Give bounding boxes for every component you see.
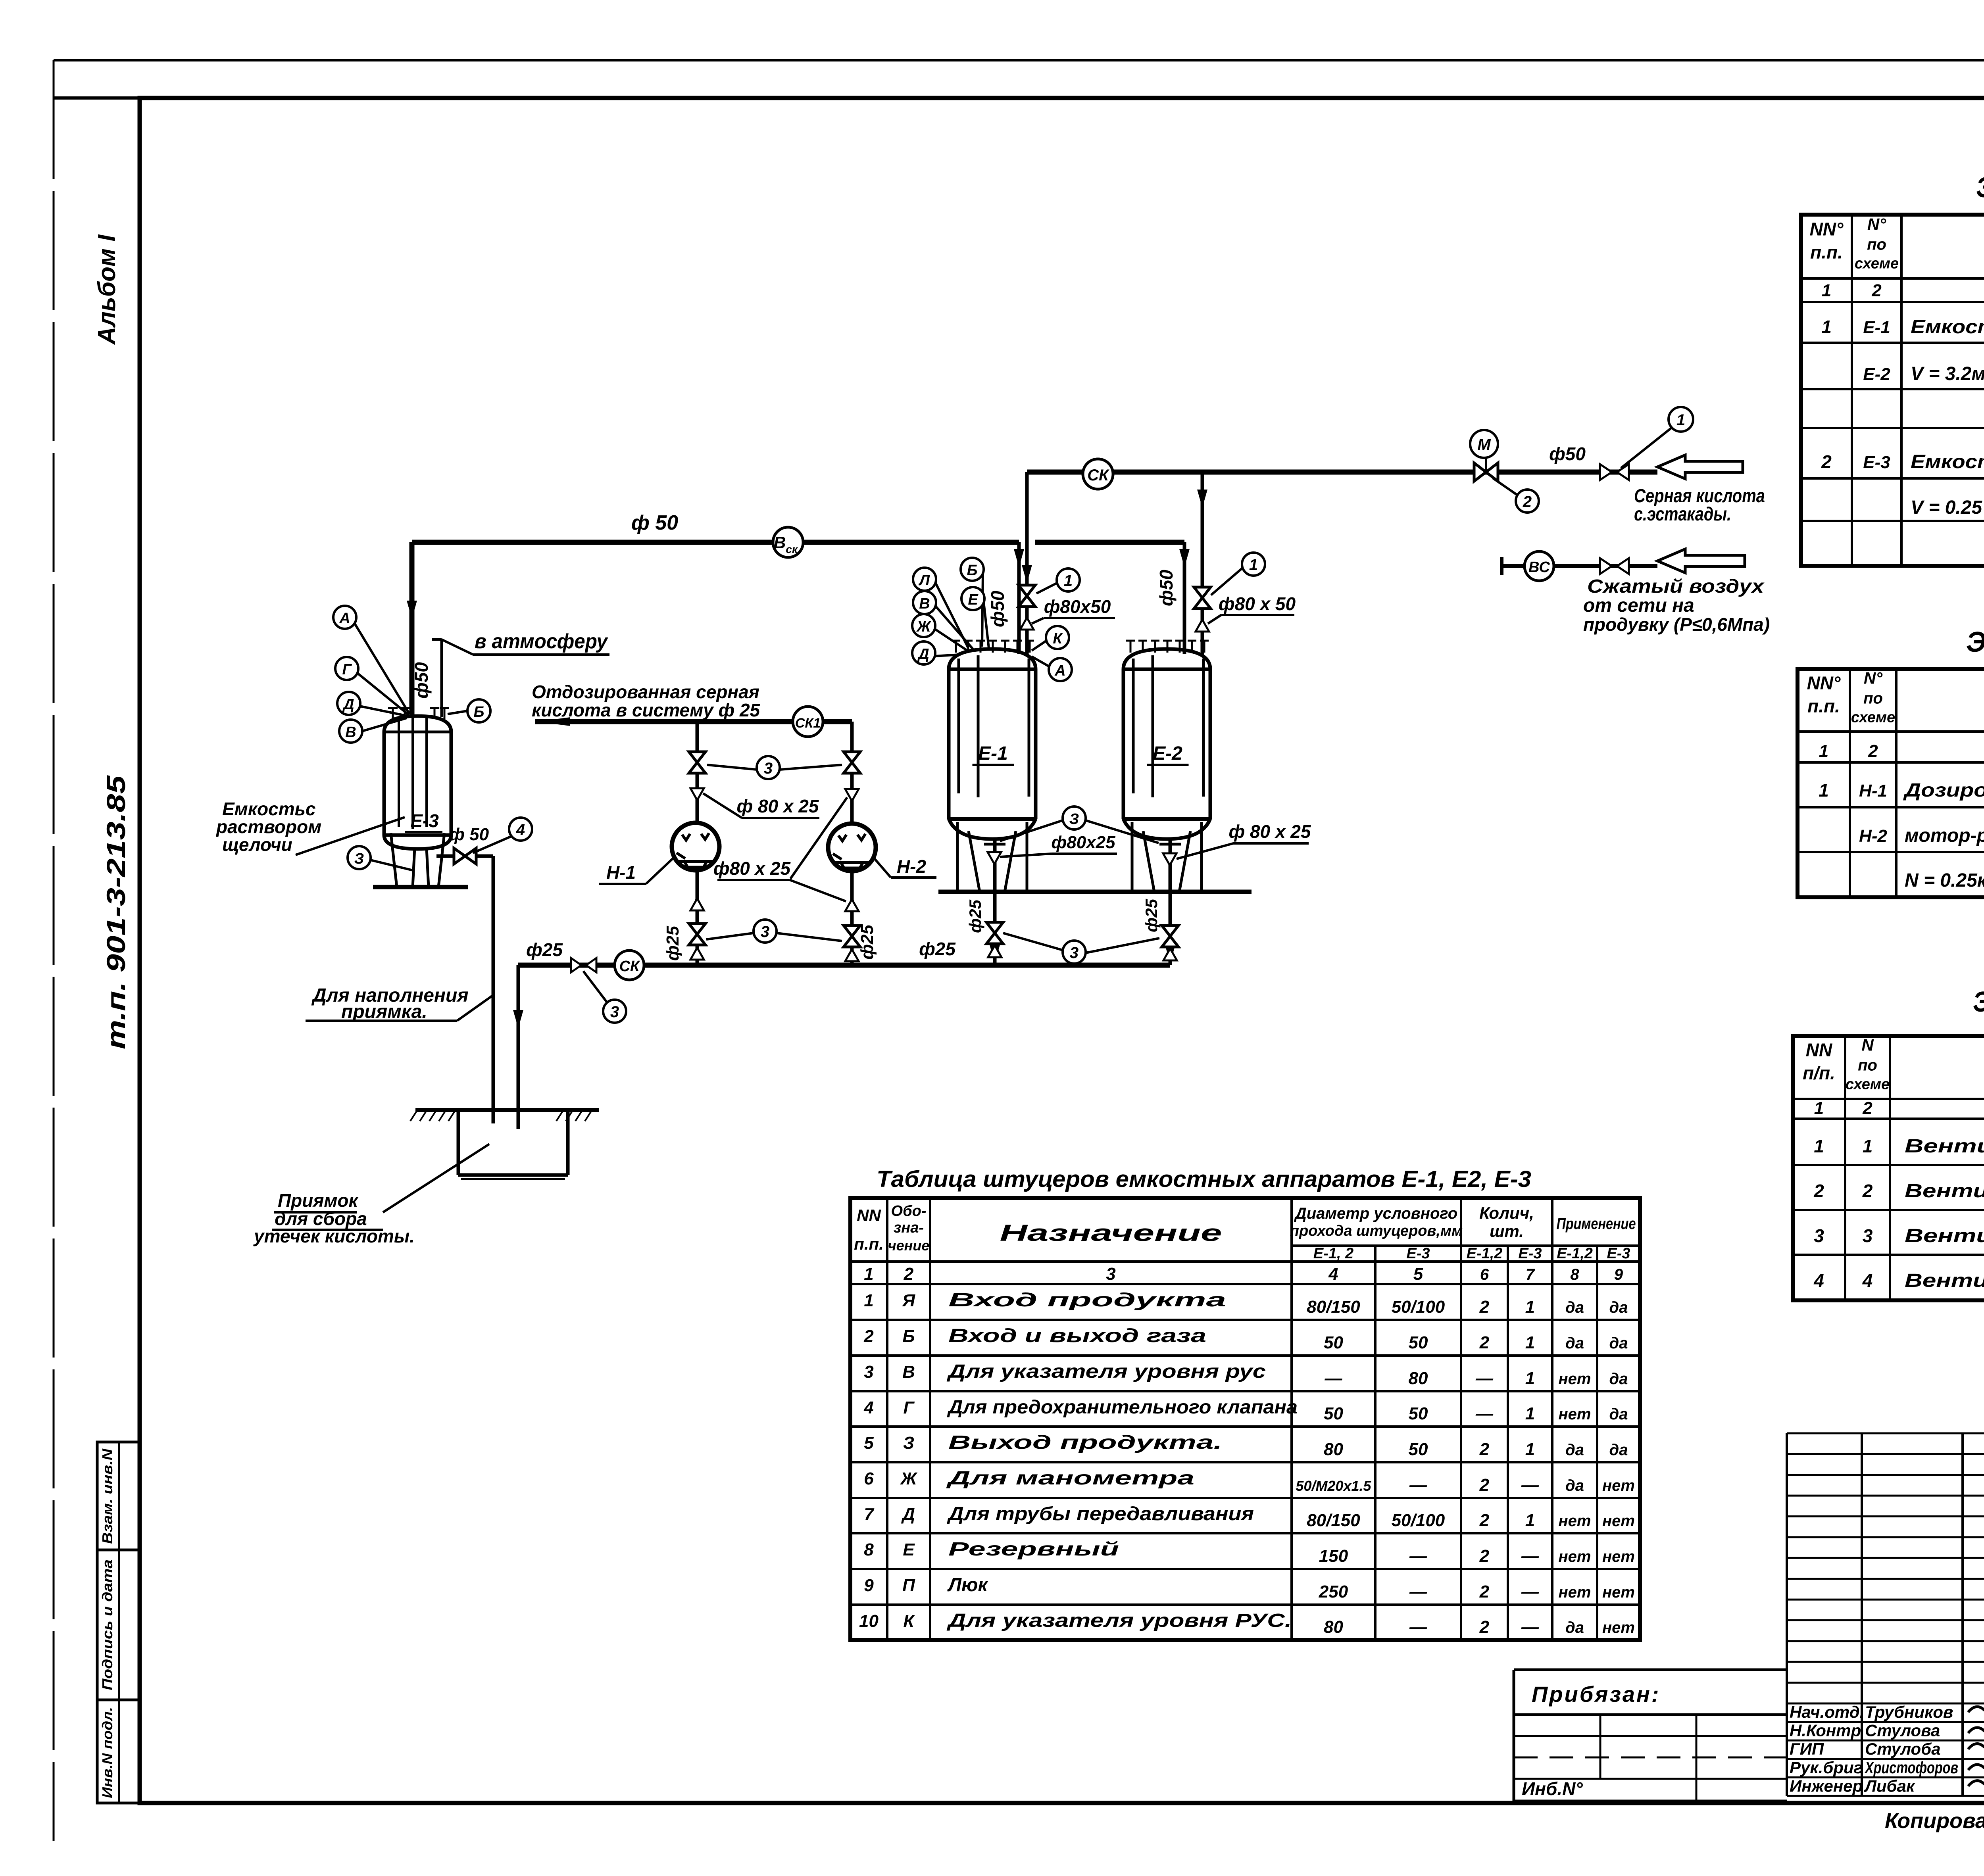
svg-text:в атмосферу: в атмосферу (475, 630, 609, 653)
svg-text:Колич,: Колич, (1479, 1204, 1534, 1222)
svg-text:нет: нет (1559, 1370, 1591, 1388)
svg-text:нет: нет (1602, 1619, 1635, 1636)
svg-text:да: да (1565, 1441, 1584, 1459)
ground line under tanks (938, 890, 1252, 894)
svg-text:Вентиль 14с 917 ст 9; Ду 5: Вентиль 14с 917 ст 9; Ду 50, Ру 1.0 Мпа (1905, 1181, 1984, 1202)
svg-text:3: 3 (1106, 1264, 1115, 1284)
svg-text:Экспликация аппаратов: Экспликация аппаратов (1976, 172, 1984, 204)
svg-text:З: З (1069, 811, 1079, 828)
svg-text:нет: нет (1559, 1406, 1591, 1423)
callout 4 (Е-3 outlet valve) (509, 818, 532, 841)
outlet nozzle З of Е-2 (1163, 853, 1177, 865)
svg-text:по: по (1867, 236, 1886, 253)
svg-text:Д: Д (917, 646, 929, 662)
svg-text:1: 1 (1525, 1297, 1535, 1317)
svg-text:Вентиль 15кч18п; Ду 50, Ру1: Вентиль 15кч18п; Ду 50, Ру1.0 Мпа (1905, 1136, 1984, 1157)
callout 1 (Е-1 feed valve) (1057, 568, 1080, 591)
svg-text:нет: нет (1602, 1477, 1635, 1494)
svg-text:ф50: ф50 (1549, 444, 1586, 464)
svg-text:т.п. 901-3-213.85: т.п. 901-3-213.85 (101, 775, 131, 1049)
callout В (Е-1) (913, 591, 936, 614)
svg-text:Применение: Применение (1557, 1215, 1636, 1233)
svg-text:Ж: Ж (900, 1469, 918, 1488)
svg-text:Вентиль 15ч75п1; Ду 50, Ру1.0: Вентиль 15ч75п1; Ду 50, Ру1.0 М па (1905, 1270, 1984, 1291)
svg-text:—: — (1521, 1617, 1539, 1637)
outer page border (54, 59, 1984, 61)
svg-text:да: да (1565, 1477, 1584, 1494)
node СК circle on header (615, 950, 644, 980)
callout 3 (discharge valves) (754, 920, 777, 943)
callout З (Е-3 outlet) (348, 846, 371, 869)
svg-text:Инженер: Инженер (1790, 1776, 1863, 1795)
svg-text:ф25: ф25 (1142, 899, 1161, 932)
wire: Е-3 drain down to pit (492, 856, 495, 1123)
svg-text:СК1: СК1 (795, 716, 821, 731)
svg-text:—: — (1475, 1369, 1494, 1388)
svg-text:3: 3 (764, 760, 773, 777)
svg-text:—: — (1409, 1582, 1427, 1601)
svg-text:2: 2 (1862, 1181, 1873, 1201)
svg-text:80: 80 (1324, 1440, 1343, 1459)
svg-text:4: 4 (516, 821, 525, 839)
title block: signature grid (1787, 1432, 1984, 1434)
svg-text:ВС: ВС (1528, 559, 1550, 576)
callout Е (Е-1) (961, 587, 984, 610)
svg-text:Н-1: Н-1 (1859, 781, 1887, 801)
svg-text:Христофоров: Христофоров (1864, 1758, 1958, 1777)
svg-text:да: да (1609, 1441, 1628, 1459)
svg-text:Взам. инв.N: Взам. инв.N (99, 1448, 115, 1544)
svg-text:нет: нет (1559, 1584, 1591, 1601)
svg-text:8: 8 (864, 1540, 874, 1559)
wire: Е-2 bottom outlet to header (1169, 839, 1172, 965)
pump Н-1 (672, 823, 719, 870)
svg-text:Инв.N подл.: Инв.N подл. (99, 1707, 115, 1798)
svg-text:Инб.N°: Инб.N° (1522, 1778, 1583, 1799)
pipe: СК acid header ф50 (1027, 470, 1657, 475)
Е-3 outlet valve (436, 854, 493, 858)
svg-text:2: 2 (904, 1264, 914, 1284)
svg-text:N°: N° (1864, 669, 1883, 687)
svg-text:1: 1 (1525, 1511, 1535, 1530)
svg-text:Г: Г (342, 661, 352, 678)
svg-text:4: 4 (1862, 1270, 1873, 1291)
svg-text:3: 3 (610, 1003, 619, 1021)
svg-text:2: 2 (1479, 1617, 1490, 1637)
svg-text:50/100: 50/100 (1392, 1511, 1445, 1530)
svg-text:50/М20х1.5: 50/М20х1.5 (1296, 1478, 1371, 1494)
node СК circle (1083, 459, 1113, 489)
leader: для наполнения приямка (457, 995, 494, 1021)
svg-text:1: 1 (1822, 281, 1831, 300)
svg-text:Вход продукта: Вход продукта (948, 1290, 1226, 1311)
svg-text:1: 1 (1819, 780, 1829, 801)
svg-text:ф50: ф50 (987, 591, 1008, 627)
svg-text:да: да (1565, 1335, 1584, 1352)
callout 1 (Е-2 feed valve) (1242, 553, 1265, 576)
svg-text:п.п.: п.п. (1807, 696, 1840, 716)
wire: suction branch to Н-2 (850, 722, 854, 824)
svg-text:4: 4 (1328, 1264, 1338, 1284)
svg-text:—: — (1409, 1546, 1427, 1566)
svg-text:Емкость для серной кислоты: Емкость для серной кислоты ВЭЭ1-1-3.2-0.… (1911, 317, 1984, 338)
svg-text:Е-3: Е-3 (1406, 1245, 1430, 1262)
svg-text:ф25: ф25 (966, 899, 984, 933)
callout 3 (bottom drain valves) (1063, 941, 1086, 964)
svg-text:ф50: ф50 (411, 662, 432, 699)
svg-text:ф80х50: ф80х50 (1044, 596, 1111, 617)
reducer on Н-1 discharge (690, 899, 704, 910)
vent pipe в атмосферу (440, 639, 443, 717)
callout В (Е-3) (339, 720, 362, 743)
reducer on Н-2 discharge (845, 899, 859, 911)
svg-text:Я: Я (902, 1291, 915, 1310)
svg-text:В: В (902, 1362, 915, 1382)
svg-text:—: — (1521, 1582, 1539, 1601)
svg-text:2: 2 (863, 1327, 874, 1346)
svg-text:п/п.: п/п. (1803, 1063, 1835, 1083)
svg-text:1: 1 (1525, 1404, 1535, 1423)
svg-text:7: 7 (864, 1505, 875, 1524)
svg-text:Емкость для раствора щелочи: Емкость для раствора щелочи ВЭЭ-0.25-0.6… (1911, 451, 1984, 472)
svg-text:нет: нет (1602, 1548, 1635, 1565)
svg-text:ф 50: ф 50 (449, 825, 489, 844)
svg-text:Н-2: Н-2 (1859, 826, 1887, 846)
wire: discharge Н-1 to ф25 header (696, 870, 699, 965)
callout 3 (header coupling) (603, 1000, 626, 1023)
outlet nozzle З of Е-1 (988, 852, 1001, 864)
svg-text:п.п.: п.п. (854, 1235, 884, 1253)
svg-text:9: 9 (864, 1576, 874, 1595)
reducer below Е-2 drain valve (1163, 949, 1177, 960)
wire: Е-1 bottom outlet to header (993, 839, 997, 965)
svg-text:Для трубы передавливания: Для трубы передавливания (947, 1503, 1254, 1525)
pump Н-2 (828, 824, 876, 871)
svg-text:Дозировочный насос НД 1.0Р: Дозировочный насос НД 1.0Р 40/25 К 13 Ас (1903, 780, 1984, 801)
svg-text:Е-1: Е-1 (1863, 318, 1890, 337)
callout А (Е-1) (1049, 658, 1072, 681)
svg-text:нет: нет (1559, 1548, 1591, 1565)
svg-text:В: В (345, 724, 356, 741)
wire: suction branch to Н-1 (696, 722, 699, 824)
svg-text:да: да (1609, 1335, 1628, 1352)
svg-text:Для предохранительного клапана: Для предохранительного клапана (947, 1397, 1298, 1418)
svg-text:50: 50 (1324, 1404, 1343, 1423)
svg-text:ф25: ф25 (919, 939, 956, 959)
svg-text:Сжатый воздух: Сжатый воздух (1587, 576, 1765, 597)
wire: acid branch to Е-2 (1201, 472, 1204, 655)
pit walls (457, 1110, 460, 1175)
svg-text:Для указателя уровня РУС.: Для указателя уровня РУС. (946, 1610, 1292, 1631)
svg-text:по: по (1863, 690, 1883, 707)
svg-text:Е-1,2: Е-1,2 (1557, 1245, 1593, 1262)
svg-text:ф25: ф25 (663, 926, 682, 961)
svg-text:Для указателя уровня рус: Для указателя уровня рус (946, 1361, 1266, 1382)
svg-text:2: 2 (1479, 1546, 1490, 1566)
svg-text:да: да (1609, 1370, 1628, 1388)
pipe: СК1 dosed acid header ф25 (535, 719, 852, 724)
svg-text:50: 50 (1409, 1440, 1428, 1459)
svg-text:250: 250 (1319, 1582, 1348, 1601)
left stamp cells (97, 1442, 140, 1803)
svg-text:NN°: NN° (1807, 673, 1841, 693)
svg-text:ф80 х 25: ф80 х 25 (713, 858, 791, 879)
svg-text:К: К (903, 1611, 915, 1631)
svg-text:80: 80 (1324, 1617, 1343, 1637)
hose coupling on air line (1600, 558, 1612, 574)
node Вск circle (773, 527, 803, 557)
big arrow: серная кислота supply (1657, 455, 1743, 479)
svg-text:М: М (1477, 436, 1491, 453)
svg-text:2: 2 (1862, 1098, 1872, 1118)
wire: gas branch down into Е-1 (1017, 542, 1021, 654)
coupling valve on header (571, 958, 581, 972)
svg-text:по: по (1858, 1057, 1877, 1074)
node ВС circle (1525, 551, 1554, 581)
привязан box (1514, 1670, 1787, 1801)
svg-text:3: 3 (1863, 1225, 1873, 1246)
svg-text:1: 1 (1525, 1369, 1535, 1388)
svg-text:Е-1: Е-1 (978, 743, 1008, 764)
svg-text:щелочи: щелочи (222, 834, 292, 855)
svg-text:Б: Б (967, 562, 978, 579)
valve 1 on Е-2 feed (1194, 587, 1211, 609)
tank Е-2 (1123, 641, 1210, 892)
svg-text:ф25: ф25 (857, 925, 877, 960)
svg-text:Таблица штуцеров емкостных: Таблица штуцеров емкостных аппаратов Е-1… (877, 1166, 1531, 1192)
callout Б (Е-3) (467, 699, 490, 722)
svg-text:2: 2 (1868, 741, 1878, 761)
svg-text:1: 1 (1064, 572, 1073, 589)
svg-text:50: 50 (1324, 1333, 1343, 1352)
svg-text:1: 1 (1525, 1333, 1535, 1352)
svg-text:ф25: ф25 (526, 939, 563, 960)
reducer below Е-1 drain valve (988, 945, 1002, 957)
svg-text:В: В (919, 595, 930, 612)
svg-text:Вентиль 15кч18п; Ду 25, Ру: Вентиль 15кч18п; Ду 25, Ру 1.6 Мпа (1905, 1225, 1984, 1246)
svg-text:Н-2: Н-2 (897, 856, 927, 877)
svg-text:Д: Д (342, 696, 354, 713)
svg-text:Вход и выход газа: Вход и выход газа (948, 1325, 1206, 1346)
svg-text:ф80х25: ф80х25 (1051, 833, 1115, 852)
svg-text:1: 1 (864, 1291, 873, 1310)
svg-text:Е-3: Е-3 (410, 810, 439, 831)
svg-text:80/150: 80/150 (1307, 1511, 1360, 1530)
pipe: Вск gas header ф50 (412, 540, 1019, 545)
svg-text:Прибязан:: Прибязан: (1532, 1682, 1661, 1707)
svg-text:З: З (354, 851, 364, 867)
pipe: ф25 bottom header (518, 963, 1170, 968)
svg-text:NN°: NN° (1810, 219, 1844, 240)
svg-text:зна-: зна- (894, 1219, 924, 1236)
svg-text:—: — (1521, 1546, 1539, 1566)
svg-text:Н.Контр: Н.Контр (1790, 1721, 1861, 1740)
big arrow: air supply (1657, 549, 1745, 573)
callout 1 (acid inlet coupling) (1669, 407, 1693, 432)
wire: gas branch down into Е-2 (1183, 542, 1186, 654)
svg-text:Е: Е (968, 591, 979, 608)
svg-text:—: — (1409, 1475, 1427, 1495)
svg-text:NN: NN (1806, 1040, 1832, 1060)
pipe: Е-3 feed ф50 vertical (409, 542, 415, 718)
svg-text:150: 150 (1319, 1546, 1348, 1566)
svg-text:N: N (1861, 1036, 1874, 1054)
svg-text:50: 50 (1409, 1404, 1428, 1423)
callout Г (Е-3) (335, 657, 358, 680)
ground at pit (415, 1108, 599, 1112)
valve 3 on Н-1 discharge (689, 924, 706, 945)
svg-text:нет: нет (1602, 1512, 1635, 1530)
svg-text:1: 1 (1249, 556, 1258, 574)
valve 3 on Н-2 suction (844, 752, 860, 773)
svg-text:9: 9 (1614, 1266, 1623, 1283)
svg-text:Нач.отд.: Нач.отд. (1790, 1703, 1864, 1721)
svg-text:п.п.: п.п. (1810, 242, 1843, 263)
reducer below Н-1 discharge valve (690, 948, 704, 960)
svg-text:от сети на: от сети на (1583, 595, 1694, 616)
wire: discharge Н-2 to ф25 header (850, 870, 854, 965)
wire: header drain down to pit (517, 965, 520, 1129)
svg-text:шт.: шт. (1490, 1222, 1524, 1240)
svg-text:N°: N° (1867, 215, 1886, 234)
svg-text:3: 3 (761, 923, 769, 941)
svg-text:К: К (1053, 630, 1063, 647)
svg-text:7: 7 (1526, 1266, 1535, 1283)
svg-text:утечек кислоты.: утечек кислоты. (253, 1226, 415, 1246)
svg-text:2: 2 (1479, 1440, 1490, 1459)
svg-text:10: 10 (859, 1611, 879, 1631)
svg-text:2: 2 (1523, 493, 1532, 511)
svg-text:Люк: Люк (947, 1575, 988, 1596)
svg-text:А: А (1054, 662, 1065, 679)
svg-text:З: З (903, 1433, 914, 1453)
svg-text:3: 3 (1070, 944, 1079, 962)
svg-text:Б: Б (474, 704, 484, 720)
svg-text:Стулова: Стулова (1865, 1721, 1940, 1740)
valve 3 on Н-1 suction (689, 752, 706, 773)
svg-text:1: 1 (1863, 1136, 1873, 1156)
svg-text:3: 3 (864, 1362, 873, 1382)
svg-text:1: 1 (1814, 1136, 1824, 1156)
svg-text:Д: Д (901, 1505, 915, 1524)
svg-text:приямка.: приямка. (341, 1001, 427, 1022)
svg-text:80: 80 (1409, 1369, 1428, 1388)
svg-text:да: да (1565, 1619, 1584, 1636)
svg-text:СК: СК (619, 958, 640, 975)
svg-text:2: 2 (1871, 281, 1882, 300)
valve 3 on Н-2 discharge (844, 926, 860, 947)
svg-text:Е-3: Е-3 (1863, 453, 1890, 472)
hose coupling on acid inlet (1600, 464, 1612, 480)
svg-text:кислота в систему ф 25: кислота в систему ф 25 (532, 700, 761, 720)
svg-text:с.эстакады.: с.эстакады. (1634, 504, 1731, 525)
callout Л (Е-1) (913, 568, 936, 591)
svg-text:2: 2 (1479, 1297, 1490, 1317)
svg-text:—: — (1325, 1369, 1343, 1388)
callout Д (Е-3) (337, 692, 360, 715)
callout 3 (suction valves) (757, 756, 780, 779)
svg-text:СК: СК (1087, 467, 1109, 484)
valve 3 on Е-1 drain (986, 922, 1003, 944)
svg-text:Рук.бриг: Рук.бриг (1790, 1758, 1863, 1777)
svg-text:Г: Г (903, 1398, 915, 1417)
svg-text:продувку (Р≤0,6Мпа): продувку (Р≤0,6Мпа) (1583, 614, 1770, 635)
svg-text:Для манометра: Для манометра (946, 1468, 1194, 1489)
callout Д (Е-1) (912, 641, 935, 664)
svg-text:50/100: 50/100 (1392, 1297, 1445, 1317)
svg-text:прохода штуцеров,мм: прохода штуцеров,мм (1290, 1223, 1463, 1239)
svg-text:6: 6 (864, 1469, 874, 1488)
svg-text:Е-3: Е-3 (1607, 1245, 1630, 1262)
wire: acid branch to Е-1 (1025, 472, 1029, 655)
svg-text:1: 1 (1814, 1098, 1824, 1118)
callout З (tank outlets) (1063, 806, 1086, 830)
svg-text:ф 50: ф 50 (631, 511, 678, 534)
svg-text:нет: нет (1602, 1584, 1635, 1601)
svg-text:Либак: Либак (1864, 1776, 1915, 1795)
svg-text:схеме: схеме (1855, 255, 1899, 272)
svg-text:NN: NN (857, 1206, 881, 1225)
svg-text:ф 80 х 25: ф 80 х 25 (737, 796, 819, 816)
tank Е-1 (949, 641, 1036, 892)
callout К (Е-1) (1046, 626, 1069, 649)
svg-text:—: — (1409, 1617, 1427, 1637)
svg-text:Выход продукта.: Выход продукта. (948, 1432, 1222, 1453)
svg-text:Диаметр условного: Диаметр условного (1294, 1205, 1457, 1222)
svg-text:Альбом I: Альбом I (93, 234, 121, 346)
svg-text:схеме: схеме (1846, 1076, 1890, 1093)
svg-text:ф 80 х 25: ф 80 х 25 (1229, 821, 1311, 842)
svg-text:Экспликация оборудования: Экспликация оборудования (1966, 626, 1984, 658)
svg-text:1: 1 (1821, 317, 1832, 337)
svg-text:1: 1 (1525, 1440, 1535, 1459)
svg-text:2: 2 (1479, 1333, 1490, 1352)
svg-text:2: 2 (1479, 1582, 1490, 1601)
svg-text:1: 1 (864, 1264, 873, 1284)
callout 2 (valve М) (1516, 490, 1539, 513)
svg-text:Стулоба: Стулоба (1865, 1740, 1941, 1758)
svg-text:5: 5 (864, 1433, 874, 1453)
svg-text:4: 4 (1813, 1270, 1824, 1291)
svg-text:Б: Б (902, 1327, 915, 1346)
svg-text:8: 8 (1570, 1266, 1579, 1283)
svg-text:Назначение: Назначение (1000, 1220, 1222, 1246)
svg-text:да: да (1609, 1406, 1628, 1423)
svg-text:нет: нет (1559, 1512, 1591, 1530)
reducer ф80х50 on Е-1 feed (1020, 618, 1034, 630)
svg-text:Л: Л (918, 572, 930, 589)
svg-text:Трубников: Трубников (1865, 1703, 1953, 1721)
svg-text:Резервный: Резервный (948, 1539, 1119, 1560)
svg-text:А: А (339, 610, 350, 627)
svg-text:—: — (1521, 1475, 1539, 1495)
svg-text:3: 3 (1814, 1225, 1824, 1246)
svg-text:4: 4 (863, 1398, 873, 1417)
svg-text:2: 2 (1479, 1511, 1490, 1530)
svg-text:Подпись и дата: Подпись и дата (99, 1559, 115, 1690)
svg-text:Е: Е (903, 1540, 915, 1559)
svg-text:Приямок: Приямок (278, 1190, 359, 1211)
svg-text:Е-1, 2: Е-1, 2 (1313, 1245, 1353, 1262)
callout Ж (Е-1) (912, 614, 935, 637)
reducer ф80х50 on Е-2 feed (1196, 620, 1209, 632)
reducer ф80х25 on Н-2 suction (845, 789, 859, 801)
svg-text:Е-3: Е-3 (1518, 1245, 1542, 1262)
callout А (Е-3) (333, 606, 356, 629)
svg-text:П: П (902, 1576, 915, 1595)
svg-text:схеме: схеме (1851, 709, 1895, 726)
svg-text:да: да (1609, 1299, 1628, 1316)
